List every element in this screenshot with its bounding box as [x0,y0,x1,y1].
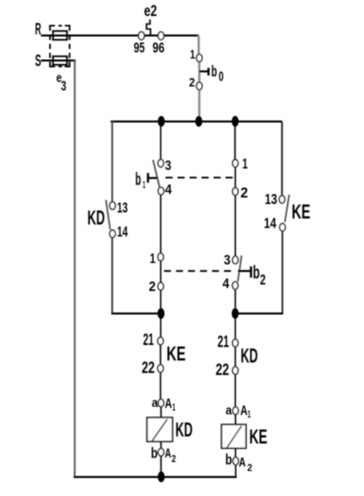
svg-text:0: 0 [219,69,224,84]
svg-text:21: 21 [143,331,154,349]
svg-text:1: 1 [190,47,195,61]
svg-text:14: 14 [117,224,128,240]
svg-text:13: 13 [117,200,128,216]
svg-text:95: 95 [134,39,145,56]
svg-text:KD: KD [175,420,192,442]
svg-text:b: b [135,169,141,189]
svg-text:A: A [239,454,246,469]
svg-text:1: 1 [172,402,175,413]
svg-text:1: 1 [143,179,146,191]
svg-text:KE: KE [292,202,311,224]
svg-text:3: 3 [61,78,67,93]
svg-text:21: 21 [218,333,230,351]
svg-text:b: b [151,446,158,462]
svg-text:b: b [211,64,217,81]
svg-text:KE: KE [249,427,267,449]
svg-text:1: 1 [248,409,251,420]
svg-text:2: 2 [247,463,252,474]
svg-text:14: 14 [264,216,276,232]
svg-text:96: 96 [153,39,165,56]
svg-text:e2: e2 [144,3,157,20]
svg-text:R: R [35,21,41,39]
svg-text:S: S [35,51,41,70]
svg-text:4: 4 [165,181,172,197]
svg-text:1: 1 [242,156,248,173]
svg-text:KD: KD [241,346,258,368]
svg-text:A: A [240,402,247,418]
svg-text:a: a [152,396,159,410]
svg-text:2: 2 [260,272,266,288]
svg-text:4: 4 [223,276,230,291]
svg-text:2: 2 [149,278,156,294]
svg-text:22: 22 [142,359,155,377]
svg-text:2: 2 [241,185,249,202]
svg-text:b: b [225,452,232,468]
svg-text:b: b [253,263,260,283]
svg-text:13: 13 [265,192,277,208]
svg-text:KE: KE [167,344,186,366]
svg-text:A: A [165,395,172,411]
svg-text:22: 22 [216,361,230,379]
svg-text:3: 3 [224,253,231,268]
svg-text:a: a [226,404,233,418]
svg-text:2: 2 [189,76,195,90]
svg-text:KD: KD [87,208,105,230]
svg-text:2: 2 [172,454,177,465]
svg-text:1: 1 [150,250,156,266]
svg-text:3: 3 [165,157,171,173]
